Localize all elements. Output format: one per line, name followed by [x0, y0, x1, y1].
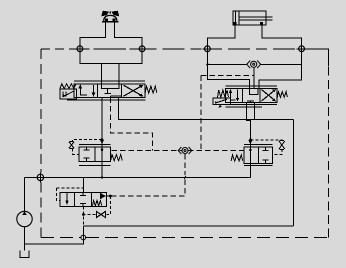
wire: motor B line	[118, 63, 120, 84]
shuttle sensor S1	[207, 60, 301, 88]
wire: V2 T stub	[254, 102, 256, 119]
V3 pilot dashes	[73, 140, 102, 155]
V4 pilot dashes	[251, 140, 283, 155]
pilot rail between lock valves (dashed)	[112, 150, 245, 152]
V1 box1 arrows	[80, 85, 93, 96]
pilot valve V5 (remote control)	[60, 177, 111, 206]
V2 left pilot box	[213, 98, 231, 104]
test point TP4	[297, 44, 307, 54]
junction dot J2	[249, 138, 252, 141]
V5 enclosure dashes	[56, 188, 83, 201]
V2 box3 cross	[262, 90, 276, 102]
wire: V2 P drop with jog	[246, 102, 250, 177]
S2 drop to pilot valve (dashed)	[111, 154, 186, 196]
wire: gauge line inside motor body	[83, 48, 139, 50]
wire: return drop right	[292, 119, 294, 225]
wire: right rail solid top	[305, 49, 329, 66]
wire: tank return rail	[84, 225, 294, 227]
pilot line to right valve (dashed)	[201, 76, 254, 151]
V1 left spring	[60, 84, 76, 89]
cylinder C1	[233, 11, 273, 25]
V3 spring right	[111, 155, 123, 161]
V1 center box	[101, 84, 119, 89]
motor body (swing gearbox outline)	[80, 23, 142, 64]
test point TP3	[203, 44, 213, 54]
main valve V1 (left, 4/3)	[60, 81, 157, 100]
junction dot J1	[101, 138, 104, 141]
V2 left spring	[218, 90, 229, 98]
test point TP2	[137, 44, 147, 54]
wire: pump supply rail	[45, 176, 250, 178]
wire: crossover tick	[184, 176, 186, 179]
wire: return to tank	[25, 226, 84, 244]
test point TP5 (on pump line)	[36, 173, 46, 183]
shuttle sensor S2	[178, 147, 192, 154]
V2 right spring	[277, 92, 287, 98]
pilot gauge rail (dashed)	[41, 48, 77, 50]
wire: node B drop to valve V2 port B	[259, 54, 302, 89]
test point TP1	[75, 44, 85, 54]
wire: motor A line	[100, 63, 102, 84]
wire: V1 P to lower valve	[101, 98, 103, 178]
junction dot J5	[109, 195, 112, 198]
wire: cylinder head-side line	[207, 25, 235, 44]
V4 pilot X	[279, 141, 285, 150]
main valve V2 (right, 4/3)	[213, 86, 288, 108]
throttle TH1	[96, 211, 106, 218]
tank T1	[20, 251, 29, 258]
junction dot J6	[82, 213, 85, 216]
V5 feedback loop (dashed)	[83, 196, 110, 226]
pump P1	[17, 177, 32, 250]
junction dot J4	[206, 63, 208, 65]
drain junction node circle	[81, 235, 86, 240]
junction dot J3	[101, 176, 104, 179]
V1 right spring	[145, 86, 157, 93]
V2 center box	[250, 89, 259, 95]
V3 pilot X	[69, 141, 74, 148]
lock valve V4 (right small)	[231, 140, 285, 165]
wire: supply rail left stub	[25, 176, 36, 178]
V1 box3 cross	[124, 85, 143, 96]
lock valve V3 (left small)	[69, 140, 122, 166]
wire: V1 T return	[119, 98, 294, 120]
V1 left pilot box	[60, 89, 77, 99]
V4 spring left	[231, 155, 243, 161]
V2 box1 arrows	[231, 90, 238, 102]
wire: node A drop to valve V2 port A	[207, 54, 249, 89]
rotary actuator M1 (swing) symbol	[101, 11, 119, 23]
wire: cylinder rod-side line	[262, 25, 302, 44]
V1 drain pilot (dashed)	[110, 98, 152, 151]
